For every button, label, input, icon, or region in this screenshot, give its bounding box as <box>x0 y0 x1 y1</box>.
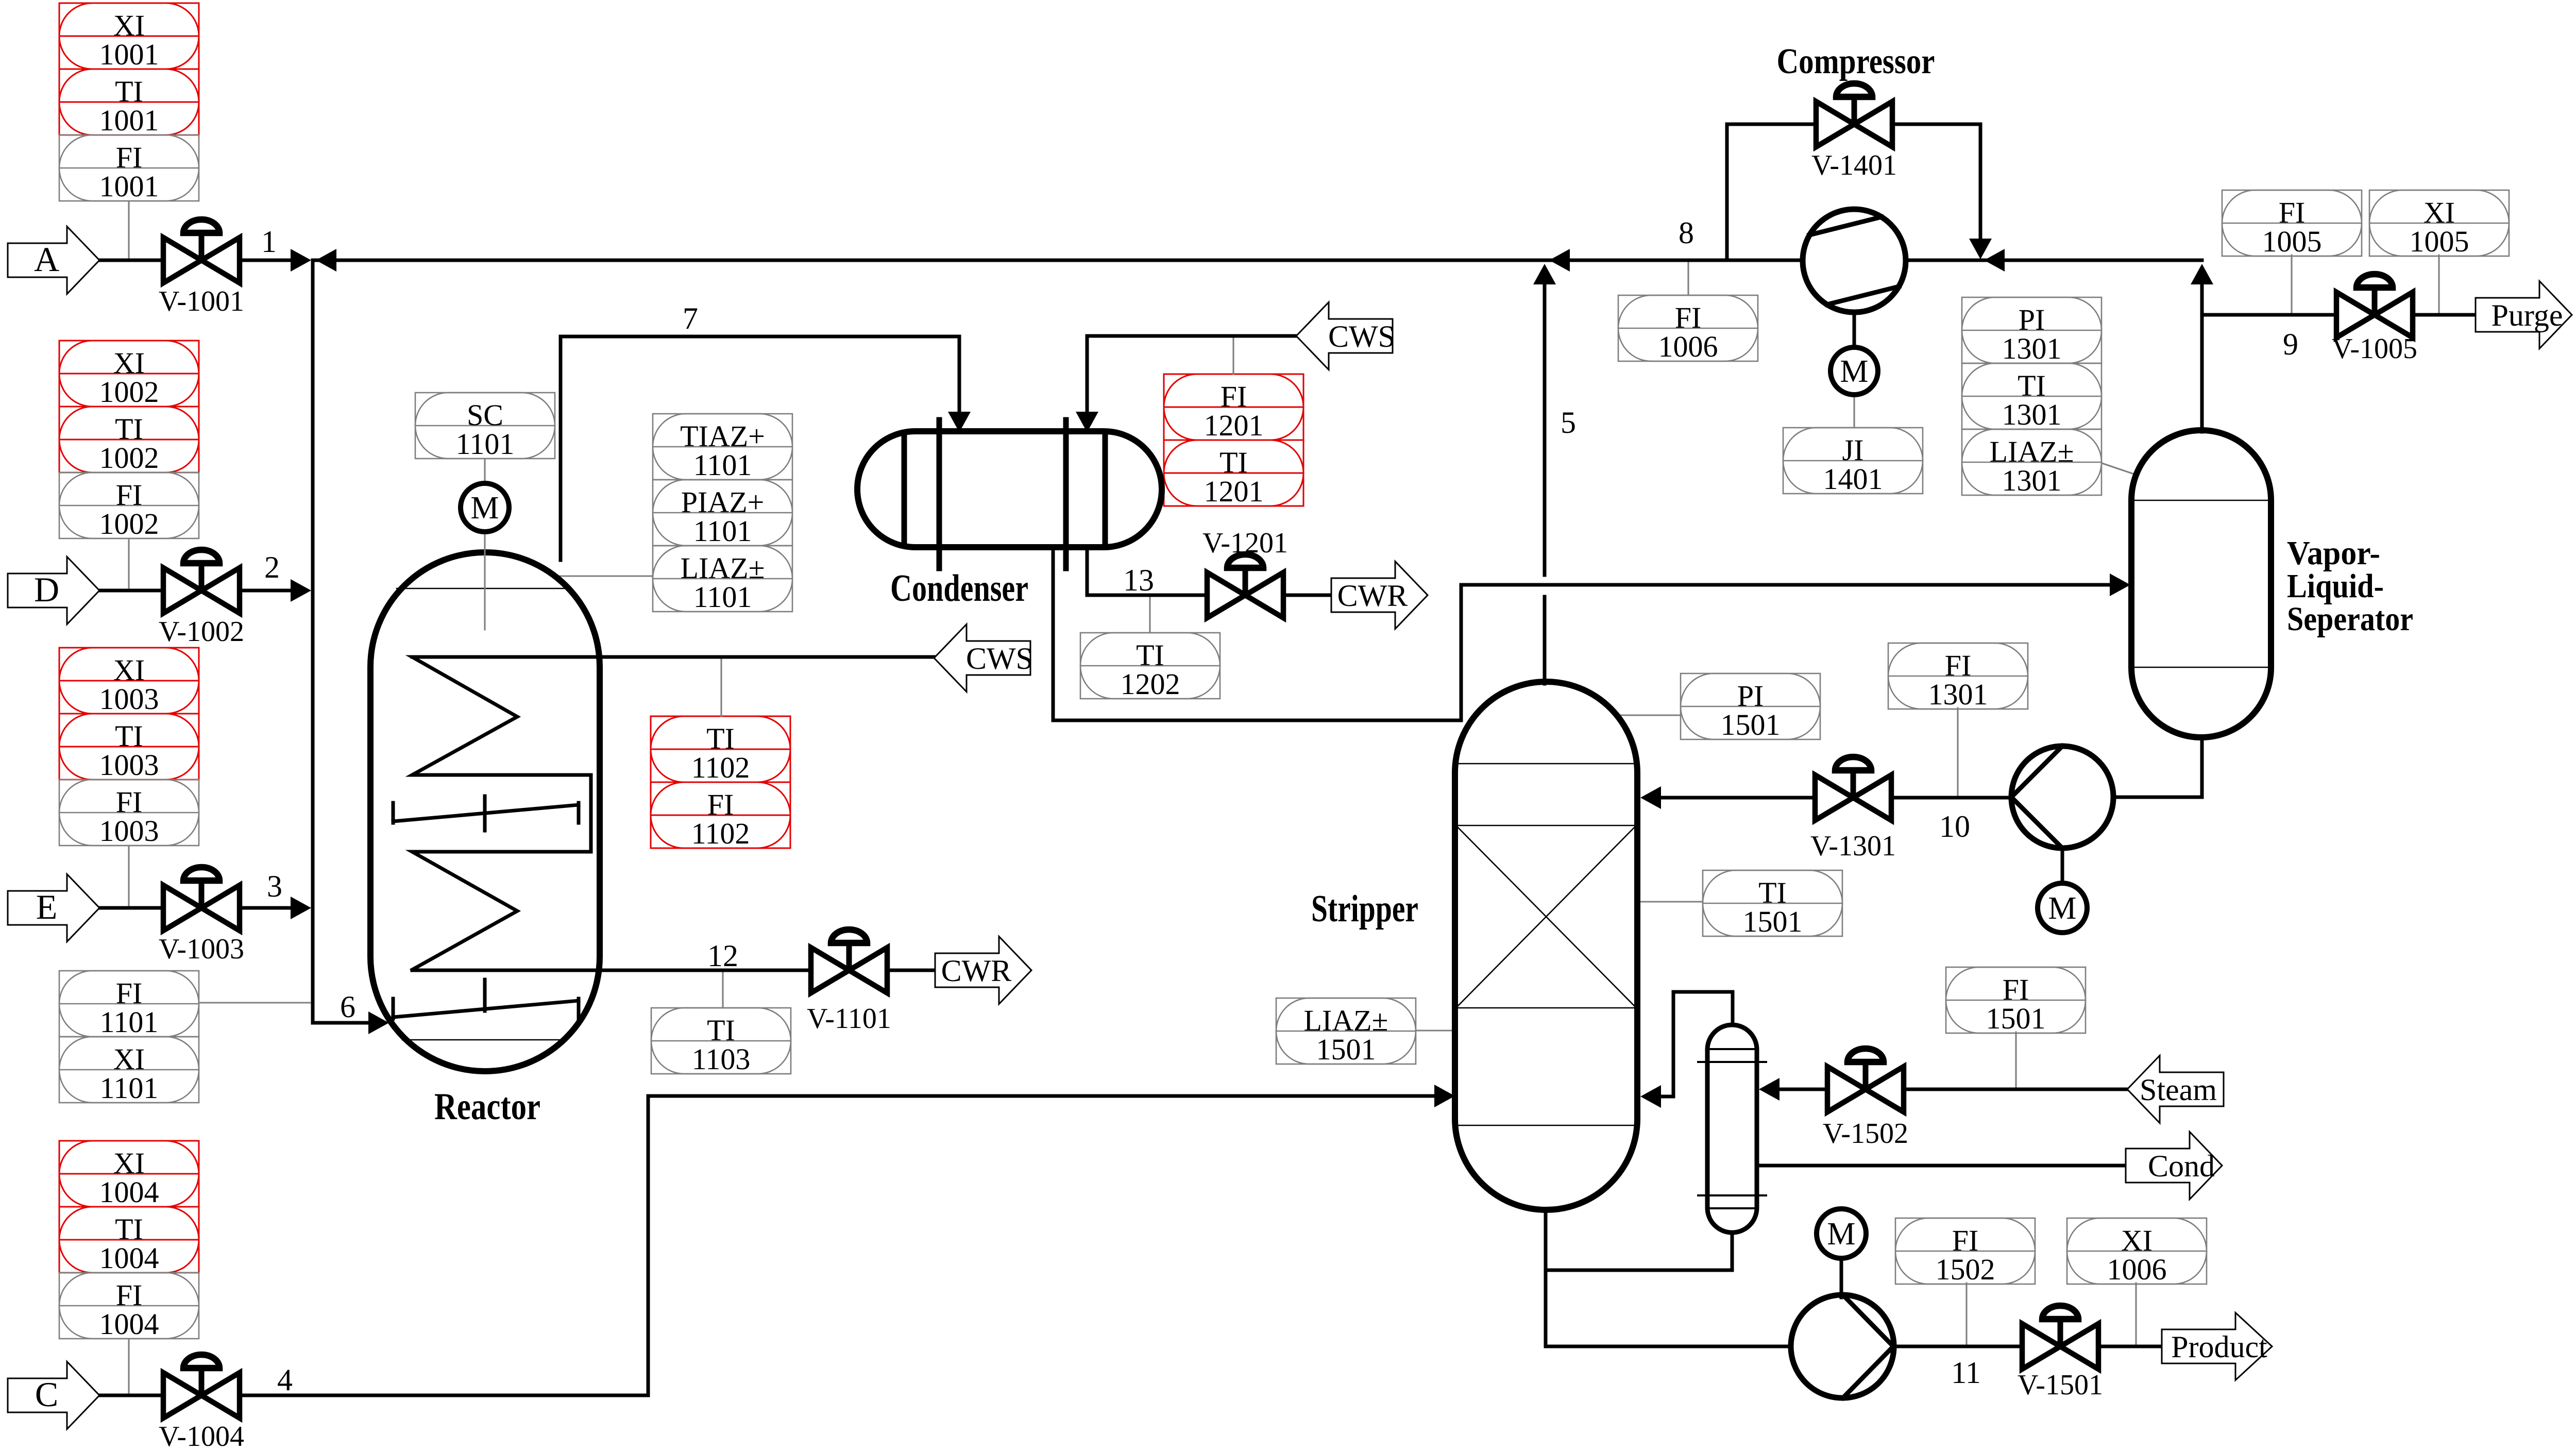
svg-text:1003: 1003 <box>99 682 159 716</box>
svg-text:3: 3 <box>267 869 282 903</box>
instrument stack FI/TI-1201 <box>1164 374 1303 508</box>
instrument stack TI/FI-1102 <box>651 716 790 850</box>
wire reboiler vapor return <box>1660 992 1733 1096</box>
svg-text:6: 6 <box>340 990 355 1024</box>
instrument stack SC-1101 <box>415 393 555 461</box>
separator pump <box>2011 746 2113 848</box>
flow arrow feed A <box>8 227 99 294</box>
flow arrow Purge <box>2476 281 2572 349</box>
wire feed header vertical <box>311 260 315 1023</box>
XI-1006 signal <box>2135 1283 2137 1345</box>
svg-text:Cond: Cond <box>2148 1149 2215 1183</box>
FI-1201 signal <box>1232 337 1234 374</box>
FI-1002 signal <box>128 538 129 589</box>
arrow CWS into condenser <box>1076 412 1098 432</box>
arrow separator riser up <box>2191 264 2213 284</box>
separator bottom line <box>2133 667 2269 668</box>
wire stream 3 (feed E) <box>99 906 161 910</box>
svg-text:V-1501: V-1501 <box>2018 1369 2103 1401</box>
condenser tube line 2 <box>937 420 942 568</box>
valve V-1502 <box>1823 1049 1908 1150</box>
wire product line <box>1894 1345 2020 1348</box>
svg-text:1004: 1004 <box>99 1175 159 1209</box>
svg-text:1002: 1002 <box>99 441 159 475</box>
svg-text:Vapor-: Vapor- <box>2287 534 2380 572</box>
svg-text:V-1003: V-1003 <box>159 933 244 965</box>
svg-text:Reactor: Reactor <box>434 1086 540 1128</box>
FI-1005 signal <box>2291 255 2292 314</box>
instrument stack FI/XI-1101 <box>59 971 199 1105</box>
svg-text:CWR: CWR <box>1337 579 1408 613</box>
FI-1006 signal <box>1687 261 1689 295</box>
wire stream 1 (feed A) <box>99 259 161 262</box>
condenser tube line 4 <box>1103 434 1108 545</box>
instrument stack XI/TI/FI-1002 <box>59 341 199 541</box>
arrow stream 4 into stripper <box>1434 1085 1455 1107</box>
flow arrow feed E <box>8 874 99 942</box>
svg-text:4: 4 <box>277 1363 293 1397</box>
svg-text:V-1005: V-1005 <box>2332 333 2417 365</box>
TI-1501 signal <box>1637 901 1703 902</box>
flow arrow feed D <box>8 557 99 625</box>
svg-text:1003: 1003 <box>99 748 159 782</box>
svg-text:7: 7 <box>683 301 698 335</box>
flow arrow feed C <box>8 1362 99 1429</box>
svg-text:V-1301: V-1301 <box>1810 830 1896 862</box>
instrument stack TIAZ/PIAZ/LIAZ-1101 <box>653 414 792 614</box>
svg-text:V-1001: V-1001 <box>159 285 244 317</box>
arrow stream 10 into stripper <box>1640 786 1661 809</box>
instrument stack PI/TI/LIAZ-1301 <box>1962 297 2102 497</box>
instrument stack LIAZ-1501 <box>1276 998 1416 1066</box>
junction arrow stream 3 <box>291 897 311 919</box>
svg-text:1005: 1005 <box>2262 225 2322 258</box>
svg-text:1001: 1001 <box>99 170 159 203</box>
reactor agitator paddle upper <box>393 796 579 831</box>
reboiler bottom inner line <box>1709 1207 1755 1209</box>
reactor vessel <box>370 552 600 1071</box>
svg-text:Product: Product <box>2171 1330 2267 1364</box>
LIAZ-1301 signal <box>2102 463 2137 475</box>
wire recycle line stream 8 <box>314 259 1803 262</box>
svg-text:Compressor: Compressor <box>1777 42 1935 81</box>
svg-text:1005: 1005 <box>2410 225 2469 258</box>
svg-text:1006: 1006 <box>1658 330 1718 363</box>
svg-text:12: 12 <box>707 939 738 973</box>
TI-1103 signal <box>722 972 723 1008</box>
svg-text:CWS: CWS <box>1328 319 1395 353</box>
wire stream 13 (condenser CWR) <box>1087 547 1205 595</box>
LIAZ-1501 signal <box>1416 1030 1456 1031</box>
svg-text:CWR: CWR <box>941 954 1012 988</box>
valve V-1001 <box>159 220 244 317</box>
svg-text:V-1002: V-1002 <box>159 616 244 648</box>
reactor bottom line <box>402 1039 565 1041</box>
wire separator overhead riser <box>2200 283 2204 432</box>
instrument stack JI-1401 <box>1783 428 1923 496</box>
svg-text:1301: 1301 <box>2002 398 2062 431</box>
svg-text:1501: 1501 <box>1721 708 1781 741</box>
svg-text:Purge: Purge <box>2492 298 2563 332</box>
instrument stack XI-1005 <box>2369 190 2509 258</box>
arrow reboiler return into stripper <box>1640 1085 1661 1108</box>
svg-text:V-1401: V-1401 <box>1811 149 1897 181</box>
wire reactor CWS line <box>412 655 934 659</box>
instrument stack XI/TI/FI-1004 <box>59 1141 199 1341</box>
svg-text:1201: 1201 <box>1204 409 1264 442</box>
FI-1004 signal <box>128 1339 129 1394</box>
svg-text:M: M <box>470 491 499 526</box>
svg-text:1002: 1002 <box>99 507 159 541</box>
svg-text:1102: 1102 <box>691 751 750 784</box>
condenser tube line 3 <box>1063 420 1069 568</box>
reactor agitator paddle lower <box>393 980 579 1019</box>
flow arrow CWS reactor <box>934 625 1033 692</box>
svg-text:D: D <box>34 570 59 609</box>
FI-1101 signal <box>199 1002 312 1003</box>
svg-text:Stripper: Stripper <box>1311 888 1418 930</box>
product pump <box>1791 1295 1894 1398</box>
svg-text:1501: 1501 <box>1986 1002 2046 1035</box>
reboiler (steam heater) <box>1707 1025 1757 1233</box>
flow arrow Cond <box>2126 1132 2222 1200</box>
wire compressor bypass V-1401 <box>1727 124 1814 260</box>
svg-text:E: E <box>36 887 58 926</box>
svg-text:1004: 1004 <box>99 1307 159 1341</box>
separator top line <box>2133 500 2269 501</box>
TI-1202 signal <box>1149 596 1150 633</box>
svg-text:CWS: CWS <box>966 642 1033 676</box>
FI-1301 signal <box>1957 708 1958 796</box>
svg-text:1101: 1101 <box>100 1005 159 1039</box>
svg-text:1101: 1101 <box>100 1071 159 1105</box>
wire stream 10 (pump to V-1301 to stripper) <box>1893 796 2011 800</box>
wire stream 5 (stripper overhead) <box>1543 283 1547 575</box>
svg-text:8: 8 <box>1679 216 1694 250</box>
wire reboiler bottoms <box>1546 1233 1732 1270</box>
instrument stack FI-1502 <box>1895 1218 2035 1286</box>
valve V-1005 <box>2332 274 2417 365</box>
wire stream 9 (purge) <box>2204 313 2334 317</box>
reactor cooling coil <box>412 657 600 970</box>
svg-text:1101: 1101 <box>693 514 752 548</box>
reactor agitator shaft <box>484 532 485 630</box>
TI-1102 signal <box>720 658 722 716</box>
svg-text:1101: 1101 <box>456 427 515 461</box>
arrow bypass down <box>1969 239 1992 259</box>
stripper lower tray line <box>1455 1125 1637 1126</box>
svg-text:M: M <box>1840 354 1868 389</box>
svg-text:1: 1 <box>261 225 277 259</box>
compressor motor M <box>1831 347 1878 395</box>
XI-1005 signal <box>2438 255 2439 314</box>
svg-text:1301: 1301 <box>2002 464 2062 497</box>
condenser shell <box>857 431 1162 547</box>
svg-text:1102: 1102 <box>691 817 750 850</box>
svg-text:Seperator: Seperator <box>2287 600 2413 638</box>
svg-text:Steam: Steam <box>2140 1073 2217 1107</box>
wire separator bottoms to pump <box>2113 738 2202 797</box>
svg-text:1001: 1001 <box>99 104 159 137</box>
svg-text:1003: 1003 <box>99 814 159 848</box>
valve V-1002 <box>159 550 244 648</box>
svg-text:Condenser: Condenser <box>890 567 1028 610</box>
svg-text:13: 13 <box>1123 563 1154 597</box>
stripper packing bottom line <box>1456 1007 1636 1009</box>
svg-text:V-1201: V-1201 <box>1202 527 1288 559</box>
svg-text:A: A <box>34 240 59 279</box>
arrow steam into reboiler <box>1759 1078 1780 1101</box>
svg-text:1401: 1401 <box>1823 462 1883 496</box>
reboiler bottom tube sheet <box>1698 1194 1766 1196</box>
arrow stream 6 into reactor <box>368 1011 389 1034</box>
svg-text:11: 11 <box>1951 1356 1981 1390</box>
svg-text:1501: 1501 <box>1743 905 1803 938</box>
flow arrow CWS condenser <box>1296 302 1395 370</box>
svg-text:V-1101: V-1101 <box>807 1003 891 1035</box>
instrument stack TI-1103 <box>651 1008 791 1076</box>
svg-text:1201: 1201 <box>1204 475 1264 508</box>
svg-text:1006: 1006 <box>2107 1253 2167 1286</box>
svg-text:1301: 1301 <box>2002 332 2062 365</box>
svg-text:1202: 1202 <box>1121 667 1180 701</box>
wire stripper bottoms stream 11 <box>1546 1210 1791 1346</box>
instrument stack FI-1301 <box>1888 643 2028 711</box>
arrow recycle flow left at stream 5 junction <box>1549 249 1570 272</box>
svg-text:1501: 1501 <box>1316 1033 1376 1066</box>
valve V-1401 <box>1811 83 1897 181</box>
svg-text:V-1502: V-1502 <box>1823 1118 1908 1150</box>
svg-text:1101: 1101 <box>693 580 752 614</box>
instrument stack FI-1005 <box>2222 190 2362 258</box>
flow arrow Steam <box>2127 1056 2224 1123</box>
PI-1501 signal <box>1618 714 1681 716</box>
reboiler top tube sheet <box>1698 1061 1766 1063</box>
junction arrow recycle into header <box>316 249 336 272</box>
reactor motor M <box>461 483 509 532</box>
valve V-1004 <box>159 1355 244 1451</box>
FI-1501 signal <box>2015 1032 2016 1088</box>
instrument stack TI-1202 <box>1080 633 1220 701</box>
svg-text:2: 2 <box>264 550 280 584</box>
reboiler top inner line <box>1709 1048 1755 1050</box>
wire condenser outlet to separator <box>1053 547 2111 720</box>
wire stream 12 (reactor CWR) <box>412 969 809 972</box>
svg-text:M: M <box>1827 1217 1855 1252</box>
stripper packing top line <box>1456 825 1636 826</box>
instrument stack XI/TI/FI-1001 <box>59 3 199 203</box>
wire condensate line <box>1757 1164 2126 1168</box>
svg-text:1301: 1301 <box>1928 678 1988 711</box>
stripper tray line top <box>1457 763 1635 765</box>
svg-text:M: M <box>2048 891 2076 926</box>
arrow feed into separator <box>2110 573 2130 596</box>
instrument stack FI-1006 <box>1618 295 1758 363</box>
compressor <box>1803 209 1906 312</box>
JI-1401 signal <box>1853 396 1855 428</box>
svg-text:V-1004: V-1004 <box>159 1421 244 1451</box>
stripper packing X <box>1456 826 1636 1007</box>
LIAZ-1101 signal <box>560 575 653 577</box>
wire stream 4 (feed C to stripper) <box>99 1394 161 1397</box>
valve V-1101 <box>807 930 891 1035</box>
FI-1502 signal <box>1965 1283 1967 1345</box>
wire product pump motor link <box>1840 1258 1843 1297</box>
instrument stack XI/TI/FI-1003 <box>59 648 199 848</box>
svg-text:5: 5 <box>1561 406 1576 440</box>
FI-1003 signal <box>128 846 129 907</box>
junction arrow stream 2 <box>291 579 311 602</box>
product pump motor M <box>1817 1209 1866 1258</box>
vapor liquid separator vessel <box>2131 430 2271 737</box>
valve V-1003 <box>159 867 244 965</box>
stripper vessel <box>1455 682 1637 1210</box>
flow arrow Product <box>2162 1313 2272 1380</box>
svg-text:1101: 1101 <box>693 448 752 482</box>
arrow stream 7 into condenser <box>948 412 971 432</box>
flow arrow CWR condenser <box>1331 562 1428 629</box>
instrument stack FI-1501 <box>1946 967 2086 1035</box>
wire stream 6 (header to reactor) <box>313 1021 369 1025</box>
wire stream 7 (reactor overhead to condenser) <box>561 336 959 560</box>
svg-text:1502: 1502 <box>1936 1253 1995 1286</box>
wire stream 2 (feed D) <box>99 589 161 593</box>
svg-text:10: 10 <box>1939 809 1970 843</box>
svg-text:9: 9 <box>2283 327 2298 361</box>
svg-text:1103: 1103 <box>692 1042 751 1076</box>
svg-text:1004: 1004 <box>99 1241 159 1275</box>
condenser tube line 1 <box>902 434 907 545</box>
SC-1101 signal <box>484 459 485 483</box>
valve V-1201 <box>1202 527 1288 618</box>
svg-text:1002: 1002 <box>99 375 159 409</box>
FI-1001 signal <box>128 201 129 259</box>
label Vapor-Liquid-Seperator <box>2287 534 2413 638</box>
valve V-1301 <box>1810 757 1896 862</box>
svg-text:C: C <box>35 1375 58 1414</box>
arrow stream 5 up <box>1533 264 1556 284</box>
instrument stack XI-1006 <box>2067 1218 2207 1286</box>
instrument stack TI-1501 <box>1703 870 1842 938</box>
instrument stack PI-1501 <box>1681 673 1820 741</box>
junction arrow stream 1 <box>291 249 311 272</box>
arrow recycle flow left at bypass junction <box>1984 249 2005 272</box>
wire CWS to condenser <box>1087 336 1296 413</box>
flow arrow CWR reactor <box>935 937 1031 1004</box>
wire compressor motor link <box>1853 312 1856 347</box>
separator pump motor M <box>2038 883 2087 933</box>
svg-text:1001: 1001 <box>99 38 159 71</box>
svg-text:Liquid-: Liquid- <box>2287 567 2384 605</box>
reactor level line <box>397 588 567 589</box>
wire steam line <box>1906 1088 2128 1091</box>
valve V-1501 <box>2018 1306 2103 1401</box>
wire pump motor link <box>2061 849 2064 883</box>
